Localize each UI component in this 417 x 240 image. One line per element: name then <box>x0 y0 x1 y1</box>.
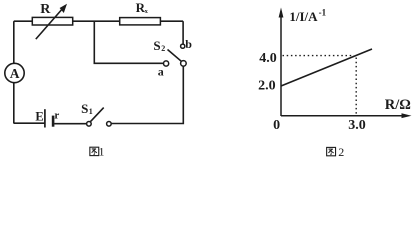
svg-text:4.0: 4.0 <box>259 51 277 66</box>
svg-text:2: 2 <box>338 145 344 159</box>
svg-text:R: R <box>40 2 51 17</box>
svg-text:a: a <box>158 64 164 78</box>
svg-text:0: 0 <box>273 118 280 133</box>
svg-text:2.0: 2.0 <box>258 79 276 94</box>
svg-text:S: S <box>81 101 88 116</box>
svg-text:r: r <box>54 110 59 122</box>
svg-text:A: A <box>10 66 20 81</box>
svg-text:x: x <box>145 8 149 15</box>
svg-text:E: E <box>35 110 43 124</box>
svg-text:2: 2 <box>161 44 165 53</box>
svg-text:-1: -1 <box>319 7 327 17</box>
svg-text:1/I/A: 1/I/A <box>289 9 318 24</box>
svg-text:1: 1 <box>89 107 93 116</box>
svg-text:S: S <box>153 38 160 53</box>
svg-text:R/Ω: R/Ω <box>385 97 411 113</box>
svg-text:3.0: 3.0 <box>348 118 366 133</box>
svg-text:1: 1 <box>99 144 105 158</box>
svg-text:b: b <box>185 37 192 51</box>
